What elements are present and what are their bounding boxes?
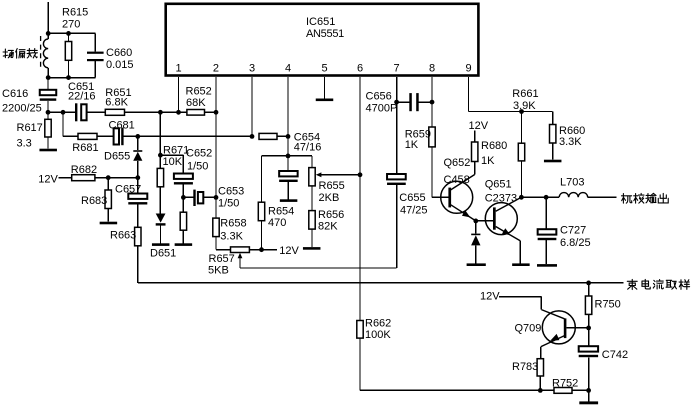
svg-text:C681: C681 [109,119,135,131]
svg-text:AN5551: AN5551 [306,28,344,40]
svg-text:3.9K: 3.9K [513,100,536,112]
svg-text:100K: 100K [365,329,391,341]
svg-text:Q709: Q709 [515,323,542,335]
svg-text:1K: 1K [481,155,495,167]
svg-text:7: 7 [394,63,400,75]
svg-text:1/50: 1/50 [187,161,208,173]
svg-text:4: 4 [285,63,291,75]
svg-text:12V: 12V [469,120,489,132]
svg-text:2200/25: 2200/25 [2,102,42,114]
svg-text:R652: R652 [186,86,212,98]
svg-text:C616: C616 [2,88,28,100]
svg-text:R750: R750 [595,298,621,310]
svg-text:R783: R783 [512,361,538,373]
svg-text:22/16: 22/16 [68,91,96,103]
svg-text:R617: R617 [17,122,43,134]
svg-text:R663: R663 [110,229,136,241]
svg-text:C2373: C2373 [485,192,517,204]
svg-text:R680: R680 [481,140,507,152]
svg-text:47/16: 47/16 [294,141,322,153]
svg-text:C657: C657 [115,184,141,196]
svg-text:C652: C652 [186,148,212,160]
svg-text:3: 3 [249,63,255,75]
svg-text:R682: R682 [71,164,97,176]
svg-text:2: 2 [213,63,219,75]
svg-text:D655: D655 [104,150,130,162]
svg-text:D651: D651 [150,248,176,260]
svg-text:6.8/25: 6.8/25 [560,237,591,249]
svg-text:5: 5 [321,63,327,75]
svg-text:IC651: IC651 [306,16,335,28]
svg-text:3.3: 3.3 [17,137,32,149]
svg-text:3.3K: 3.3K [559,136,582,148]
svg-text:1: 1 [175,63,181,75]
svg-text:2KB: 2KB [319,192,340,204]
svg-text:82K: 82K [318,221,338,233]
svg-text:3.3K: 3.3K [220,231,243,243]
svg-text:R656: R656 [318,209,344,221]
svg-text:R658: R658 [220,217,246,229]
svg-text:C653: C653 [218,186,244,198]
svg-text:470: 470 [268,217,286,229]
svg-text:0.015: 0.015 [106,59,134,71]
svg-text:10K: 10K [163,156,183,168]
svg-text:9: 9 [465,63,471,75]
svg-text:1/50: 1/50 [218,197,239,209]
svg-text:R655: R655 [319,180,345,192]
svg-text:C655: C655 [399,192,425,204]
svg-text:R662: R662 [365,318,391,330]
svg-text:R683: R683 [81,195,107,207]
svg-text:6.8K: 6.8K [105,97,128,109]
svg-text:R661: R661 [512,88,538,100]
svg-text:47/25: 47/25 [400,205,428,217]
svg-text:R615: R615 [62,6,88,18]
svg-text:C660: C660 [106,47,132,59]
svg-text:8: 8 [429,63,435,75]
svg-text:5KB: 5KB [208,264,229,276]
svg-text:R654: R654 [268,205,294,217]
svg-text:12V: 12V [38,174,58,186]
svg-text:270: 270 [62,18,80,30]
svg-text:R657: R657 [209,253,235,265]
svg-text:R660: R660 [559,125,585,137]
svg-text:12V: 12V [480,291,500,303]
svg-text:Q651: Q651 [485,179,512,191]
svg-text:C458: C458 [444,174,470,186]
svg-text:L703: L703 [560,177,584,189]
svg-text:C656: C656 [366,90,392,102]
svg-text:4700P: 4700P [366,103,398,115]
svg-text:C742: C742 [602,349,628,361]
svg-text:1K: 1K [405,139,419,151]
svg-text:6: 6 [357,63,363,75]
svg-text:C727: C727 [560,225,586,237]
svg-text:68K: 68K [186,97,206,109]
svg-text:R752: R752 [552,378,578,390]
svg-text:Q652: Q652 [444,157,471,169]
svg-text:R681: R681 [72,142,98,154]
svg-text:12V: 12V [279,245,299,257]
